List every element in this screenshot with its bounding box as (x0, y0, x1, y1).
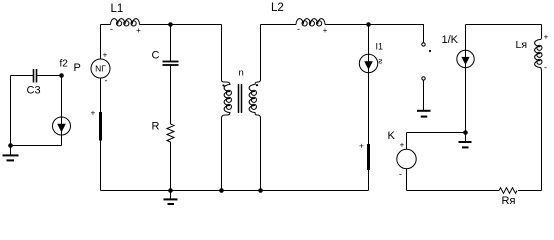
svg-text:+: + (544, 33, 549, 42)
svg-text:+: + (136, 26, 141, 35)
ground (switch branch) (417, 110, 431, 112)
ground (bottom rail) (170, 191, 172, 200)
svg-text:Rя: Rя (502, 195, 516, 206)
wire: switch branch lower vertical (423, 80, 425, 110)
svg-text:+: + (103, 51, 108, 60)
wire: left sub-loop top left segment (11, 75, 34, 77)
wire: right loop top rail (466, 24, 542, 26)
node f2 (junction dot) (59, 73, 64, 78)
svg-text:P: P (74, 62, 81, 74)
svg-text:+: + (91, 109, 96, 118)
port 2 bold segment (367, 144, 370, 170)
wire: R to bottom rail (170, 142, 172, 191)
svg-text:I1: I1 (376, 41, 384, 51)
svg-text:C3: C3 (27, 85, 41, 97)
svg-text:-: - (105, 76, 108, 86)
resistor Rya (499, 188, 517, 194)
node: bottom-left junction dot (8, 143, 13, 148)
wire: L2 to I1 junction (325, 24, 369, 26)
inductor Lya (535, 25, 542, 72)
node: top rail junction to C branch (168, 22, 173, 27)
svg-text:-: - (399, 169, 402, 179)
svg-text:+: + (323, 26, 328, 35)
wire: right loop bottom rail right of Rya (518, 190, 542, 192)
transformer primary polarity dot (222, 84, 224, 86)
wire: K to junction horizontal (407, 132, 466, 134)
wire: left edge vertical down to NG source (100, 25, 102, 60)
switch dot (429, 50, 431, 52)
node: bottom rail junction at primary (219, 188, 224, 193)
wire: f2 node down to current source (61, 76, 63, 146)
switch upper terminal (422, 43, 425, 46)
wire: right loop right vertical (541, 71, 543, 191)
wire: left sub-loop left vertical (10, 76, 12, 146)
ground (1/K branch) (465, 133, 467, 142)
wire: 1/K branch vertical (465, 25, 467, 133)
current source (left loop, arrow down) (53, 117, 71, 135)
inductor L2 (296, 19, 325, 25)
svg-text:L2: L2 (271, 2, 284, 14)
transformer T secondary winding (249, 25, 260, 191)
svg-text:Lя: Lя (516, 39, 528, 51)
port 1 bold segment (99, 112, 102, 141)
voltage generator NG (91, 59, 110, 78)
node: junction at 1/K ground (463, 130, 468, 135)
wire: C branch from top rail (170, 25, 172, 62)
wire: left sub-loop top right segment (37, 75, 62, 77)
capacitor C (163, 61, 179, 63)
node: bottom rail junction under R (168, 188, 173, 193)
svg-text:C: C (152, 50, 160, 62)
node: junction at I1 branch (366, 22, 371, 27)
wire: left sub-loop bottom (11, 145, 62, 147)
transformer secondary polarity dot (256, 84, 258, 86)
wire: right loop bottom rail left of Rya (407, 190, 500, 192)
source K (397, 149, 416, 168)
wire: NG source down to bottom rail (100, 78, 102, 191)
svg-text:-: - (110, 24, 113, 34)
wire: top rail to switch branch (369, 24, 425, 26)
wire: K circle bottom lead (406, 169, 408, 191)
svg-text:NГ: NГ (95, 64, 106, 74)
svg-text:s: s (378, 56, 382, 66)
wire: top rail from L1 to transformer (140, 24, 222, 26)
wire: secondary top rail to L2 (261, 24, 297, 26)
svg-text:n: n (239, 68, 244, 79)
inductor L1 (111, 19, 140, 25)
svg-text:R: R (152, 121, 160, 133)
svg-text:L1: L1 (111, 3, 124, 15)
wire: main top rail left segment (101, 24, 111, 26)
svg-text:-: - (297, 24, 300, 34)
node: bottom rail junction at secondary (258, 188, 263, 193)
capacitor C3 (33, 69, 35, 83)
resistor R (167, 124, 174, 142)
svg-text:+: + (400, 141, 405, 150)
svg-text:-: - (544, 63, 547, 73)
current source I1 (arrow down) (359, 54, 377, 72)
wire: main bottom rail (101, 190, 369, 192)
svg-text:f2: f2 (60, 59, 69, 70)
wire: I1 branch vertical (368, 25, 370, 191)
ground (left sub-loop) (10, 146, 12, 156)
transformer T primary winding (222, 25, 231, 191)
svg-text:1/K: 1/K (442, 34, 459, 46)
transformer core (238, 84, 240, 113)
wire: switch branch upper vertical (423, 25, 425, 43)
current source 1/K (arrow down) (457, 50, 474, 67)
svg-text:K: K (388, 130, 396, 142)
wire: between C and R (170, 65, 172, 124)
svg-text:+: + (359, 142, 364, 151)
switch lower terminal (422, 77, 425, 80)
wire: K circle top lead (406, 133, 408, 150)
